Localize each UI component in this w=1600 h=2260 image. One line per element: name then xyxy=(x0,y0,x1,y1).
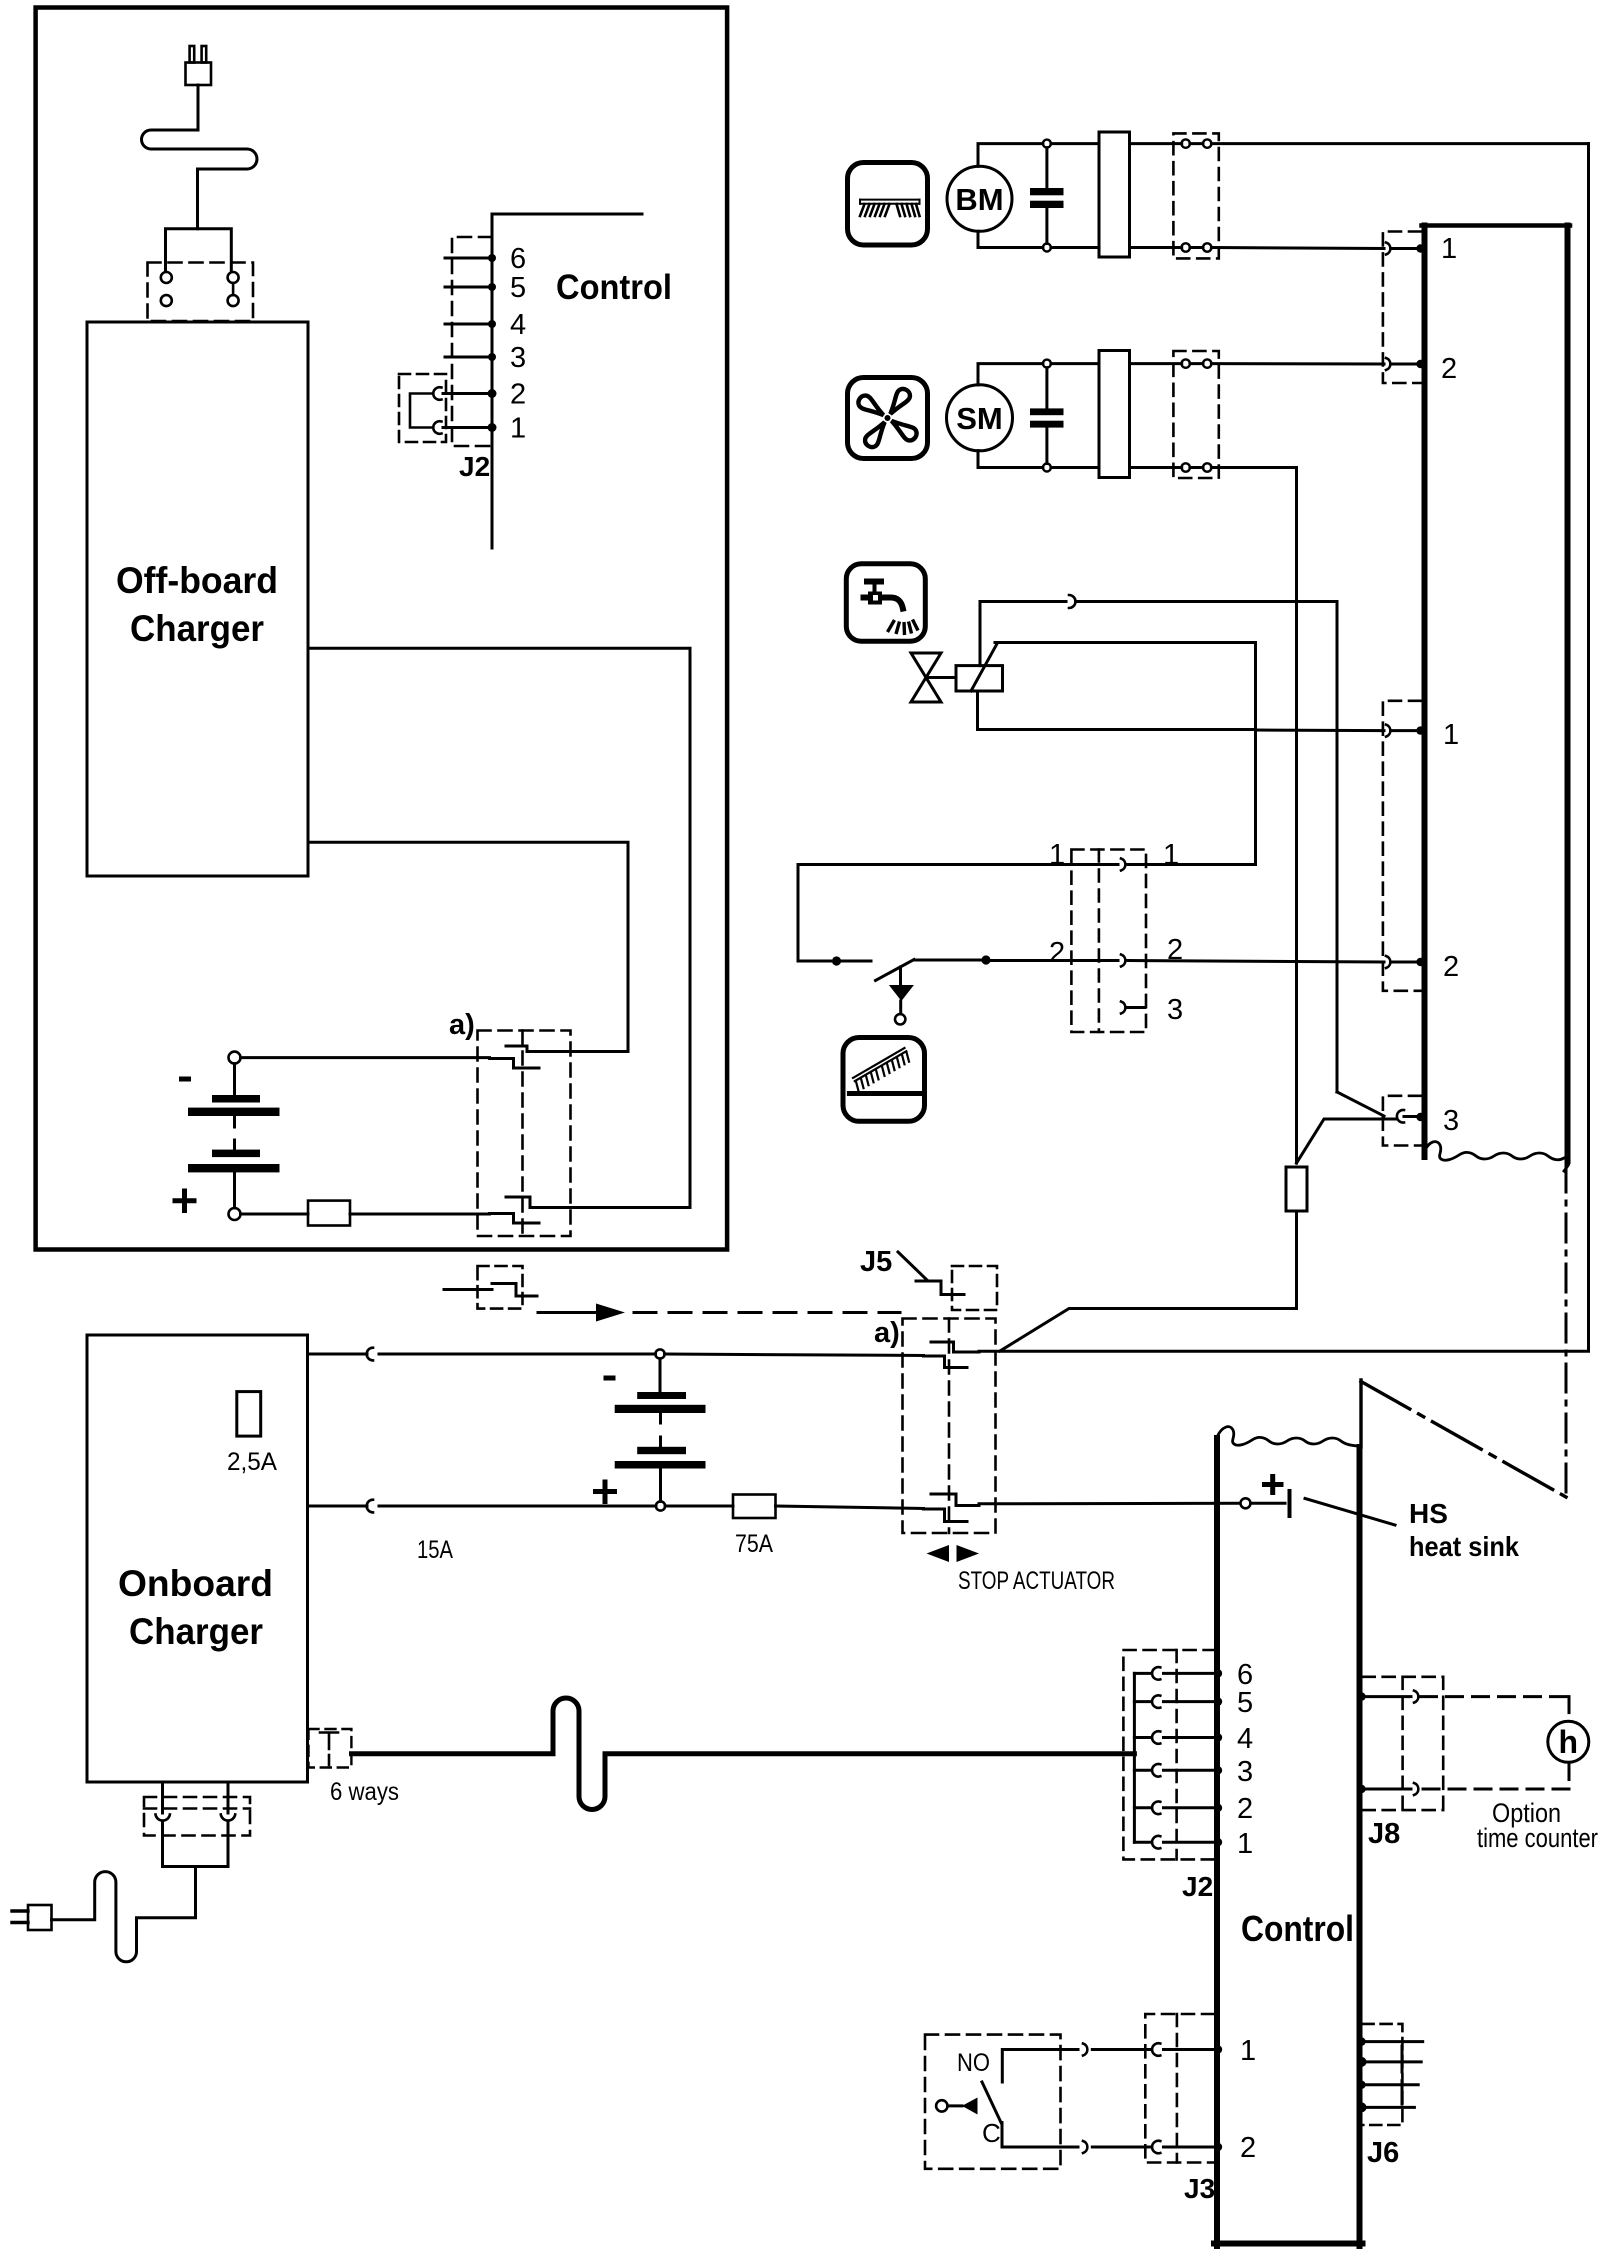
svg-text:time counter: time counter xyxy=(1477,1823,1598,1853)
inline socket on valve supply wire xyxy=(1069,595,1076,608)
svg-text:Control: Control xyxy=(556,268,672,307)
C contact wire xyxy=(1002,2123,1078,2148)
mains cord (S-curve) from plug P1 xyxy=(142,85,257,229)
svg-text:2,5A: 2,5A xyxy=(227,1448,277,1476)
svg-text:Onboard: Onboard xyxy=(118,1563,273,1604)
battery B2 minus terminal xyxy=(655,1349,664,1358)
battery B1 plus sign xyxy=(175,1191,194,1211)
plus wire to control board terminal xyxy=(979,1502,1240,1506)
BM suppressor block xyxy=(1099,132,1130,257)
battery B2 cells xyxy=(659,1359,662,1392)
BM wires top xyxy=(978,144,1043,167)
svg-text:1: 1 xyxy=(510,413,526,445)
J8 pin 2 xyxy=(1360,1788,1412,1791)
battery B2 plus terminal xyxy=(656,1501,665,1510)
SM return wire rail down xyxy=(1211,468,1296,1164)
svg-text:1: 1 xyxy=(1443,719,1459,751)
battery B1 (off-board) minus terminal xyxy=(229,1052,241,1064)
charger plus output wire xyxy=(308,1505,368,1508)
water valve symbol xyxy=(911,653,941,678)
plus sign at board terminal xyxy=(1265,1477,1282,1493)
J2 pin 2 xyxy=(1134,1806,1151,1809)
J2 pin 6 xyxy=(1134,1672,1151,1675)
middle connector pin 3 stub xyxy=(1121,1002,1125,1014)
J5 contact blade xyxy=(916,1281,964,1295)
J8 dashed connector box xyxy=(1363,1677,1444,1810)
solenoid return loop xyxy=(978,691,1256,730)
J2 pin 3 xyxy=(1134,1769,1151,1772)
heat sink hypotenuse (dash-dot diagonal) xyxy=(1361,1382,1566,1498)
wire fuse to contact a) xyxy=(350,1213,490,1216)
control box bottom edge xyxy=(1214,2241,1363,2247)
brush deck switch: feed wire xyxy=(798,865,831,962)
connector a) dashed box (off-board) xyxy=(478,1031,571,1237)
svg-text:5: 5 xyxy=(1237,1687,1253,1719)
svg-text:Charger: Charger xyxy=(129,1611,263,1652)
SM wires top xyxy=(978,364,1043,385)
stop actuator direction arrows xyxy=(927,1545,950,1562)
inline socket plus xyxy=(367,1500,373,1513)
J2 pin 6 xyxy=(445,257,492,260)
J2 pin 3 xyxy=(445,356,492,359)
J6 pins xyxy=(1360,2040,1423,2043)
J2 pin 5 xyxy=(445,286,492,289)
J2 (bottom) multicore bus xyxy=(1133,1673,1136,1842)
6-ways connector dashed box xyxy=(309,1729,352,1768)
fan blades xyxy=(840,371,934,465)
wire from x1337 riser into pin 3 xyxy=(1337,1092,1384,1116)
svg-text:heat sink: heat sink xyxy=(1409,1531,1519,1562)
J2 pin 2 xyxy=(443,392,492,395)
middle connector pin 1 socket and wires xyxy=(798,863,1118,866)
Control unit partial outline (top box) xyxy=(492,214,642,548)
BM inline connector dashed box xyxy=(1173,133,1218,258)
dash-dot rail (board right edge continuation) xyxy=(1565,1164,1568,1497)
svg-text:15A: 15A xyxy=(417,1536,453,1564)
BM return wire to board pin 1 xyxy=(1211,248,1384,249)
switch blade xyxy=(876,960,915,981)
svg-text:1: 1 xyxy=(1237,1828,1253,1860)
svg-text:3: 3 xyxy=(1443,1105,1459,1137)
mains connector (dashed box with 4 pins) xyxy=(148,263,254,322)
battery B1 cells xyxy=(233,1064,236,1095)
svg-text:1: 1 xyxy=(1240,2035,1256,2067)
NO contact wire xyxy=(1002,2050,1078,2083)
inline socket minus xyxy=(367,1348,373,1361)
svg-text:a): a) xyxy=(449,1009,475,1041)
C socket xyxy=(1083,2141,1087,2153)
junction dot xyxy=(832,956,841,965)
wire 75A fuse to stop contact xyxy=(776,1506,924,1509)
svg-text:2: 2 xyxy=(1441,353,1457,385)
connector socket cups xyxy=(156,1815,170,1821)
actuator linkage arrow xyxy=(538,1311,596,1314)
middle connector pin 2 socket and wire to board pin 2 xyxy=(1121,955,1125,967)
wavy board break (top right board) xyxy=(1425,1142,1570,1171)
wire to middle connector pin 2 xyxy=(991,959,1118,962)
6-ways cable (bold) from charger xyxy=(352,1698,1135,1810)
svg-text:3: 3 xyxy=(1167,994,1183,1026)
stop actuator connector a) dashed box xyxy=(903,1319,996,1534)
stop contact lower pole (plus) xyxy=(924,1509,968,1522)
svg-text:75A: 75A xyxy=(735,1530,773,1558)
svg-text:1: 1 xyxy=(1163,839,1179,871)
charger bottom connector pins xyxy=(161,1782,164,1813)
Off-board Charger box xyxy=(87,322,308,876)
fuse 2,5A inside charger xyxy=(237,1392,261,1437)
jumper socket contacts xyxy=(433,387,441,400)
board pin 3 dashed connector xyxy=(1383,1096,1421,1146)
battery B2 minus sign xyxy=(604,1376,616,1381)
connector lower housing xyxy=(163,1822,229,1867)
mains connector housing (solid) above off-board charger xyxy=(166,229,232,271)
suction motor icon xyxy=(848,378,928,459)
battery B1 minus sign xyxy=(179,1077,191,1082)
SM wires bottom xyxy=(978,451,1043,468)
svg-text:6 ways: 6 ways xyxy=(330,1778,399,1806)
brush motor icon xyxy=(848,163,928,246)
svg-text:3: 3 xyxy=(510,342,526,374)
contact a) lower pole (plus) xyxy=(490,1214,540,1224)
connector pin circles xyxy=(161,272,239,306)
fuse F2 (inline, vertical) xyxy=(1286,1167,1307,1211)
mains plug P2 (bottom) xyxy=(12,1905,52,1930)
fuse F1 (off-board battery fuse) xyxy=(308,1201,350,1226)
BM wires bottom xyxy=(978,231,1043,247)
board mid pins 1-2 dashed connector xyxy=(1383,701,1421,991)
svg-text:Control: Control xyxy=(1241,1908,1354,1949)
key switch actuator xyxy=(936,2100,947,2111)
hour meter h xyxy=(1548,1721,1589,1762)
mating half of contact a) below box (dashed) xyxy=(478,1266,523,1309)
BM supply rail down right side xyxy=(1587,144,1590,1351)
board pin 2 socket xyxy=(1386,358,1390,370)
jumper plug on J2 pins 1-2 (dashed box) xyxy=(399,374,446,442)
riser x=1255 valve loop to middle connector pin1 xyxy=(1254,643,1257,865)
solenoid coil EV xyxy=(956,666,1003,691)
wire battery B1 plus to fuse xyxy=(241,1213,309,1216)
J2 pin 1 xyxy=(443,426,492,429)
svg-text:4: 4 xyxy=(1237,1723,1253,1755)
outer enclosure box (off-board charging station) xyxy=(36,8,728,1250)
svg-text:2: 2 xyxy=(1049,937,1065,969)
svg-text:Charger: Charger xyxy=(130,608,264,649)
heat sink top edge xyxy=(1359,1380,1362,1447)
connector J2 (top control) dashed outline xyxy=(452,237,492,446)
SM supply wire to board pin 2 xyxy=(1211,362,1384,365)
svg-text:HS: HS xyxy=(1409,1498,1448,1529)
svg-text:2: 2 xyxy=(510,379,526,411)
J5 pointer line xyxy=(898,1252,927,1280)
battery B1 plus terminal xyxy=(229,1208,241,1220)
board mid pin 2 socket xyxy=(1386,956,1390,968)
wire to junction with SM return / down to pin3 xyxy=(1076,602,1338,1093)
J2 pin 1 xyxy=(1134,1841,1151,1844)
wavy board break (bottom control box top) xyxy=(1217,1427,1361,1446)
wire fuse down and across to stop contact xyxy=(1000,1211,1297,1351)
J6 jumper ticks xyxy=(1401,2046,1404,2072)
BM connector pin pair top xyxy=(1130,142,1182,145)
svg-text:STOP ACTUATOR: STOP ACTUATOR xyxy=(958,1567,1115,1595)
wire from charger to inner contact loop (lower) xyxy=(308,842,628,1051)
svg-text:2: 2 xyxy=(1237,1793,1253,1825)
svg-text:a): a) xyxy=(874,1317,900,1349)
svg-text:1: 1 xyxy=(1049,839,1065,871)
mating contact blade xyxy=(444,1284,537,1297)
svg-text:J6: J6 xyxy=(1367,2137,1399,2169)
SM connector pin pair bottom xyxy=(1130,466,1182,469)
key switch blade xyxy=(982,2082,1001,2123)
J3 dashed connector box xyxy=(1145,2014,1214,2163)
main minus wire across to right rail xyxy=(979,1350,1589,1353)
brush deck icon (tilted brush) xyxy=(843,1038,925,1122)
fuse 75A xyxy=(733,1495,776,1519)
motor BM xyxy=(947,166,1012,231)
contact a) upper pole (minus) xyxy=(490,1059,540,1069)
svg-text:NO: NO xyxy=(957,2049,990,2077)
BM supply wire to right rail xyxy=(1211,142,1588,145)
board pin 3 socket xyxy=(1397,1110,1404,1123)
charger bottom connector dashed box xyxy=(144,1797,250,1836)
wire solenoid top to supply xyxy=(980,602,1066,666)
board pins 1-2 connector dashed box xyxy=(1383,232,1421,384)
BM connector pin pair bottom xyxy=(1130,246,1182,249)
control board (top right) outline xyxy=(1422,226,1428,1158)
HS pointer line xyxy=(1305,1499,1395,1526)
Onboard Charger box xyxy=(87,1335,308,1782)
board pin 1 socket xyxy=(1386,243,1390,255)
board plus terminal xyxy=(1241,1498,1251,1508)
board mid pin 1 socket xyxy=(1386,725,1390,737)
svg-text:2: 2 xyxy=(1240,2132,1256,2164)
key switch dashed box xyxy=(925,2035,1061,2169)
motor SM xyxy=(947,385,1013,451)
SM connector pin pair top xyxy=(1130,362,1182,365)
valve to solenoid link xyxy=(926,676,956,679)
water tap icon xyxy=(846,564,925,642)
switch plunger with diode-style head xyxy=(899,967,902,984)
SM inline connector dashed box xyxy=(1173,351,1218,478)
switch lead xyxy=(841,960,871,963)
svg-text:3: 3 xyxy=(1237,1756,1253,1788)
battery B2 plus sign xyxy=(596,1482,615,1502)
J2 pin 5 xyxy=(1134,1700,1151,1703)
stop contact upper pole (minus) xyxy=(924,1356,968,1368)
svg-text:SM: SM xyxy=(956,401,1003,436)
svg-text:C: C xyxy=(982,2118,1001,2148)
J3 pin 1 xyxy=(1092,2048,1151,2051)
control box (bottom) left edge xyxy=(1214,1438,1220,2246)
connector J5 dashed box xyxy=(952,1266,997,1310)
time counter wiring (dashed) xyxy=(1421,1697,1570,1789)
svg-text:5: 5 xyxy=(510,272,526,304)
wire blade to junction xyxy=(914,959,981,962)
mains plug P1 (top) xyxy=(186,46,212,85)
svg-text:J2: J2 xyxy=(1182,1871,1213,1902)
svg-text:4: 4 xyxy=(510,309,526,341)
J8 pin 1 xyxy=(1360,1695,1412,1698)
capacitor C1 across BM xyxy=(1045,148,1048,188)
capacitor C2 across SM xyxy=(1045,368,1048,409)
middle connector dashed box (pins 1,2,3) xyxy=(1071,850,1146,1033)
svg-text:J5: J5 xyxy=(860,1246,892,1278)
wire battery minus to stop contact xyxy=(665,1354,924,1356)
terminal bar xyxy=(1288,1491,1292,1516)
control box right edge xyxy=(1357,1447,1363,2246)
J2 (bottom) dashed connector box xyxy=(1123,1650,1215,1859)
wire valve loop junction to board pin 1 (mid) xyxy=(1256,729,1385,733)
wire battery B1 minus to contact a) xyxy=(241,1056,490,1059)
svg-text:BM: BM xyxy=(955,182,1003,217)
J6 dashed box xyxy=(1363,2024,1403,2125)
svg-text:6: 6 xyxy=(510,243,526,275)
svg-text:2: 2 xyxy=(1443,951,1459,983)
SM suppressor block xyxy=(1099,351,1130,478)
charger minus output wire xyxy=(308,1353,368,1356)
J3 pin 2 xyxy=(1092,2146,1151,2149)
svg-text:h: h xyxy=(1559,1724,1579,1760)
J2 pin 4 xyxy=(1134,1736,1151,1739)
NO socket xyxy=(1083,2044,1087,2056)
svg-text:J3: J3 xyxy=(1184,2173,1215,2204)
svg-text:Off-board: Off-board xyxy=(116,560,278,601)
wire battery plus to 75A fuse xyxy=(665,1505,733,1508)
jumper bracket wire xyxy=(410,394,433,428)
J2 pin 4 xyxy=(445,323,492,326)
mains cord (bottom) xyxy=(52,1867,196,1962)
svg-text:J2: J2 xyxy=(459,451,490,482)
wire from charger to outer contact loop (upper) xyxy=(308,648,690,1207)
svg-text:J8: J8 xyxy=(1368,1818,1400,1850)
junction dot xyxy=(981,955,990,964)
branch to board pin 3: riser diagonal xyxy=(1297,1119,1397,1163)
svg-text:1: 1 xyxy=(1441,233,1457,265)
